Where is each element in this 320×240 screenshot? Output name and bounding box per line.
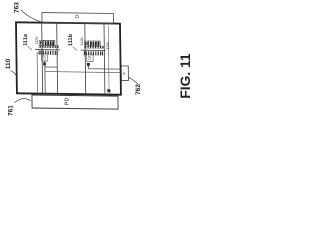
svg-text:D: D	[75, 14, 81, 18]
svg-text:PD: PD	[64, 97, 70, 105]
svg-text:110: 110	[5, 58, 12, 69]
svg-text:112c: 112c	[106, 42, 110, 50]
svg-text:761: 761	[8, 105, 15, 116]
svg-text:FIG. 11: FIG. 11	[178, 53, 193, 99]
svg-text:112a: 112a	[35, 37, 39, 45]
svg-text:762: 762	[135, 84, 142, 95]
svg-text:12f: 12f	[88, 56, 92, 61]
svg-text:763: 763	[14, 2, 21, 13]
svg-text:12f: 12f	[42, 55, 46, 60]
svg-text:111a: 111a	[23, 33, 29, 46]
svg-text:112b: 112b	[80, 37, 84, 45]
svg-text:111b: 111b	[68, 33, 74, 46]
